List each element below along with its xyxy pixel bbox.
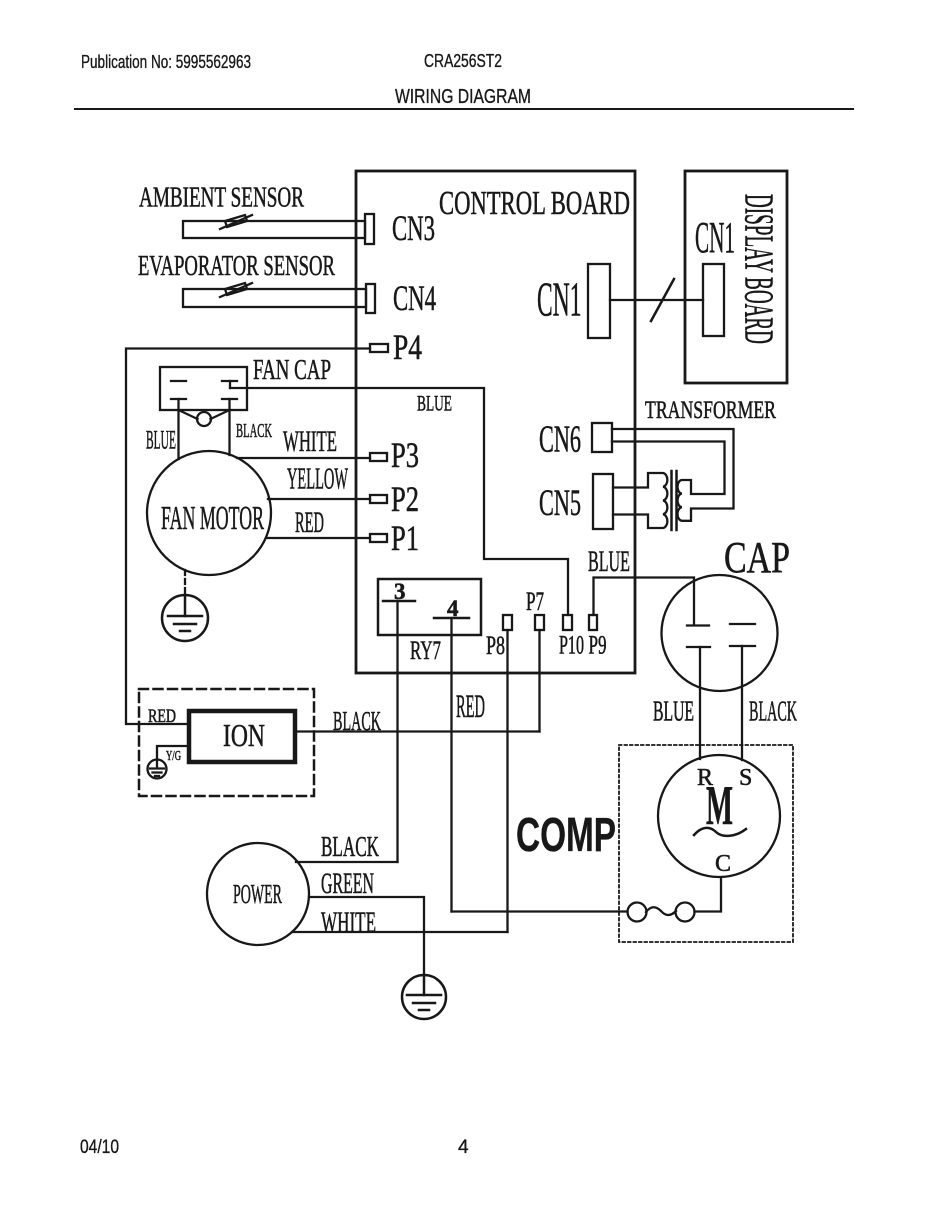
svg-text:RED: RED bbox=[148, 706, 176, 727]
svg-text:4: 4 bbox=[447, 596, 459, 621]
svg-text:P2: P2 bbox=[391, 479, 419, 519]
svg-text:C: C bbox=[715, 851, 731, 877]
svg-text:CONTROL BOARD: CONTROL BOARD bbox=[439, 185, 630, 222]
svg-text:M: M bbox=[706, 775, 733, 837]
svg-text:FAN CAP: FAN CAP bbox=[253, 354, 331, 386]
svg-text:AMBIENT SENSOR: AMBIENT SENSOR bbox=[139, 182, 304, 214]
svg-text:BLUE: BLUE bbox=[588, 545, 630, 578]
svg-text:P3: P3 bbox=[391, 435, 419, 475]
svg-text:RED: RED bbox=[295, 506, 324, 539]
svg-text:BLUE: BLUE bbox=[146, 426, 176, 455]
svg-text:S: S bbox=[739, 765, 752, 791]
svg-text:CN1: CN1 bbox=[695, 213, 735, 262]
svg-text:CN4: CN4 bbox=[393, 278, 436, 318]
svg-text:EVAPORATOR SENSOR: EVAPORATOR SENSOR bbox=[138, 250, 335, 282]
svg-text:BLACK: BLACK bbox=[333, 706, 381, 736]
svg-text:DISPLAY BOARD: DISPLAY BOARD bbox=[737, 194, 783, 344]
svg-text:FAN MOTOR: FAN MOTOR bbox=[161, 500, 264, 537]
svg-text:04/10: 04/10 bbox=[80, 1137, 119, 1158]
svg-text:COMP: COMP bbox=[516, 809, 616, 862]
svg-text:Y/G: Y/G bbox=[166, 749, 181, 764]
svg-text:RY7: RY7 bbox=[410, 636, 441, 665]
svg-text:CN1: CN1 bbox=[537, 272, 582, 327]
svg-text:WHITE: WHITE bbox=[321, 906, 376, 939]
svg-text:BLUE: BLUE bbox=[417, 391, 452, 416]
svg-text:TRANSFORMER: TRANSFORMER bbox=[645, 397, 776, 424]
svg-text:GREEN: GREEN bbox=[321, 867, 374, 900]
svg-text:BLUE: BLUE bbox=[653, 697, 694, 728]
svg-text:Publication No: 5995562963: Publication No: 5995562963 bbox=[81, 52, 251, 72]
svg-text:P9: P9 bbox=[589, 631, 607, 660]
svg-text:4: 4 bbox=[458, 1137, 469, 1158]
svg-text:P8: P8 bbox=[486, 631, 505, 660]
svg-text:P7: P7 bbox=[526, 587, 544, 616]
svg-text:CRA256ST2: CRA256ST2 bbox=[424, 51, 502, 71]
svg-text:CAP: CAP bbox=[724, 533, 790, 582]
svg-text:POWER: POWER bbox=[233, 879, 282, 909]
svg-text:P10: P10 bbox=[559, 631, 584, 660]
svg-text:CN3: CN3 bbox=[392, 208, 435, 248]
svg-text:RED: RED bbox=[456, 689, 485, 725]
svg-text:P4: P4 bbox=[393, 327, 422, 367]
svg-text:WHITE: WHITE bbox=[283, 425, 337, 458]
svg-text:BLACK: BLACK bbox=[321, 831, 379, 863]
svg-text:CN5: CN5 bbox=[539, 483, 581, 524]
svg-text:3: 3 bbox=[394, 579, 406, 604]
svg-text:BLACK: BLACK bbox=[236, 420, 272, 442]
svg-text:YELLOW: YELLOW bbox=[287, 461, 348, 496]
svg-text:P1: P1 bbox=[391, 518, 419, 558]
svg-text:BLACK: BLACK bbox=[749, 697, 797, 728]
svg-text:ION: ION bbox=[223, 717, 265, 753]
svg-text:WIRING DIAGRAM: WIRING DIAGRAM bbox=[395, 86, 531, 108]
svg-text:CN6: CN6 bbox=[539, 419, 581, 461]
